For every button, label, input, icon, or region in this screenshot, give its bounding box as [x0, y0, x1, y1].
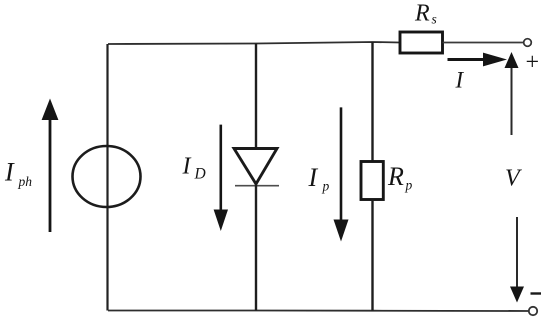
arrow: V upper (upward toward +)	[505, 52, 519, 135]
svg-text:I: I	[182, 154, 192, 180]
wire: left vertical rail	[106, 44, 108, 311]
svg-text:V: V	[505, 166, 522, 192]
label Iph	[4, 158, 32, 189]
svg-text:I: I	[455, 68, 465, 93]
positive terminal (circle)	[524, 39, 532, 47]
resistor Rp (box)	[361, 162, 383, 200]
label ID	[182, 154, 206, 183]
arrow: ID (downward)	[214, 125, 228, 231]
svg-text:s: s	[432, 12, 437, 27]
diode D1	[234, 149, 279, 186]
negative terminal (circle)	[529, 307, 537, 315]
arrow: Iph direction (upward, left of source)	[42, 99, 59, 233]
wire: diode branch upper segment	[255, 44, 257, 149]
current source Iph (circle)	[73, 146, 141, 207]
wire: Rs to positive terminal	[443, 42, 525, 44]
arrow: V lower (downward toward -)	[510, 217, 524, 303]
svg-text:p: p	[322, 178, 330, 193]
svg-text:ph: ph	[18, 174, 33, 189]
label Rp	[387, 162, 413, 192]
resistor Rs (box)	[400, 32, 443, 53]
svg-text:I: I	[308, 163, 319, 192]
svg-text:+: +	[524, 50, 540, 76]
label minus	[531, 292, 542, 294]
wire: top horizontal rail	[108, 42, 400, 44]
wire: bottom horizontal rail	[108, 310, 529, 313]
label Rs	[414, 0, 437, 26]
svg-text:I: I	[4, 158, 15, 187]
svg-text:p: p	[405, 178, 413, 193]
svg-text:D: D	[194, 166, 206, 183]
wire: diode branch lower segment	[255, 184, 257, 311]
wire: Rp branch lower segment	[371, 200, 373, 311]
arrow: Ip (downward)	[334, 107, 349, 241]
arrow: output current I (rightward)	[448, 53, 508, 67]
svg-text:R: R	[387, 162, 404, 191]
svg-text:R: R	[414, 0, 430, 26]
wire: Rp branch upper segment	[371, 42, 373, 162]
label Ip	[308, 163, 330, 194]
